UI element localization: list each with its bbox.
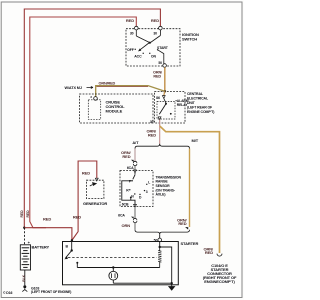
svg-text:ELECTRICAL: ELECTRICAL (187, 97, 209, 101)
svg-text:ON: ON (151, 55, 157, 59)
label ALARM RELAY (175, 100, 177, 102)
alarm relay pin 86 (arrow) (162, 96, 165, 99)
wire ORN/RED horizontal to cruise module (96, 86, 165, 97)
border frame (decorative) (1, 2, 242, 298)
svg-text:L: L (148, 181, 150, 185)
generator box (86, 180, 104, 198)
connector C104/O E half-circle (217, 254, 222, 257)
wire out of CEU (159, 120, 161, 126)
chassis ground starter (169, 283, 175, 290)
wire below sensor (134, 207, 136, 219)
relay contact arm (164, 98, 166, 103)
transmission range sensor box (120, 171, 153, 207)
split bracket A/T-M/T (135, 144, 190, 149)
svg-text:RED: RED (126, 18, 134, 23)
switch arm pivot dot (149, 42, 151, 44)
arrowhead of switch arm (138, 48, 141, 51)
svg-text:3: 3 (146, 190, 148, 194)
svg-text:START: START (157, 46, 169, 50)
contact dot D (139, 194, 140, 195)
wire ORN/RED into alarm relay (164, 91, 165, 95)
contact dot L (146, 184, 147, 185)
arrow on wire below sensor (131, 217, 134, 219)
terminal 50 (circle) (163, 64, 167, 68)
starter terminal 50 (circle) (158, 238, 162, 242)
svg-text:BLK: BLK (22, 274, 26, 281)
wire RED horizontal battery to starter (24, 228, 72, 241)
svg-text:P: P (129, 180, 132, 184)
contact dot START (157, 49, 158, 50)
wire to merge bracket (134, 222, 136, 230)
wire ORN/RED ignition 50 down to junction (164, 67, 166, 91)
svg-text:(LEFT REAR OF: (LEFT REAR OF (187, 105, 213, 109)
svg-text:30: 30 (153, 31, 157, 35)
contact dot R (129, 189, 130, 190)
solenoid contact arm (66, 251, 72, 258)
wire A/T into sensor (134, 165, 136, 170)
svg-text:OFF: OFF (127, 48, 135, 52)
junction dot on path (130, 197, 132, 199)
solenoid fixed contact (76, 262, 78, 264)
relay fixed contact dot (170, 113, 172, 115)
wire B terminal into solenoid (71, 242, 73, 251)
svg-text:3: 3 (90, 95, 92, 99)
node motor tap (112, 266, 114, 268)
ground G102 (23, 285, 26, 288)
svg-text:RED: RED (151, 18, 159, 23)
svg-text:RED: RED (178, 221, 186, 226)
contact dot ON (149, 53, 150, 54)
svg-text:M/T: M/T (192, 138, 199, 143)
svg-text:30: 30 (150, 120, 154, 124)
node junction at cruise branch (164, 90, 167, 93)
solenoid winding from 50 (159, 242, 161, 247)
svg-text:RED: RED (26, 210, 30, 218)
starter box (63, 242, 179, 285)
wire dashed battery positive (24, 228, 26, 245)
wire START to terminal 50 (158, 50, 164, 64)
wire A/T branch down (134, 149, 136, 162)
svg-text:50: 50 (158, 61, 162, 65)
hold-in winding wire to case ground (160, 247, 172, 283)
ignition switch box (126, 29, 180, 66)
svg-text:SWITCH: SWITCH (182, 37, 197, 42)
svg-text:RED: RED (122, 154, 130, 159)
generator pin (arrow) (95, 178, 98, 181)
contact dot 3 (144, 190, 145, 191)
wire RED second feed (inner run) (30, 17, 137, 228)
wire solenoid output to motor (77, 267, 159, 269)
svg-text:© D16: © D16 (3, 291, 13, 295)
alarm relay box (157, 102, 175, 120)
svg-text:B: B (66, 245, 69, 249)
starter motor (112, 268, 114, 272)
wire to starter terminal 50 (159, 234, 161, 238)
svg-text:AXLE): AXLE) (156, 193, 166, 197)
svg-text:ENGINECOMP'T): ENGINECOMP'T) (204, 279, 235, 284)
svg-text:RED: RED (205, 250, 213, 255)
wire battery negative to ground (24, 270, 26, 285)
arrow on M/T wire end (185, 227, 188, 230)
wire motor to ground bus (112, 280, 114, 283)
svg-text:N: N (131, 195, 134, 199)
mechanical link (dashed) (68, 257, 157, 259)
node solenoid battery stud (71, 249, 73, 251)
sensor internal wire path (122, 181, 135, 205)
terminal 30 left (circle) (135, 26, 139, 30)
svg-text:RED: RED (20, 210, 24, 218)
svg-text:ACC: ACC (134, 55, 142, 59)
svg-text:30: 30 (130, 31, 134, 35)
contact dot ACC (143, 53, 144, 54)
svg-text:RED: RED (153, 74, 161, 78)
arrow on A/T wire (131, 160, 134, 162)
inline connector below sensor (133, 218, 137, 222)
svg-text:(LEFT FRONT OF ENGINE): (LEFT FRONT OF ENGINE) (31, 290, 71, 294)
svg-text:GENERATOR: GENERATOR (83, 201, 107, 206)
svg-text:RED: RED (82, 171, 90, 176)
svg-text:6CA: 6CA (127, 166, 134, 170)
terminal 30 right (circle) (159, 26, 163, 30)
contact dot OFF (135, 49, 136, 50)
cruise inner sub-box (88, 100, 100, 120)
svg-text:RED: RED (148, 132, 156, 137)
sensor top pin (arrow) (134, 170, 137, 173)
svg-text:MODULE: MODULE (106, 108, 123, 113)
cruise control module box (80, 94, 154, 123)
svg-text:CENTRAL: CENTRAL (187, 92, 204, 96)
battery (20, 245, 30, 270)
relay bottom pin (arrow) (158, 117, 161, 120)
node battery junction (23, 227, 25, 229)
svg-text:STARTER: STARTER (181, 241, 199, 246)
svg-text:6CA: 6CA (118, 214, 125, 218)
svg-text:A/T: A/T (132, 140, 139, 145)
svg-text:86: 86 (156, 96, 160, 100)
merge bracket to starter 50 (135, 230, 190, 235)
svg-text:R: R (126, 189, 129, 193)
svg-text:D: D (139, 195, 142, 199)
node starter B junction (71, 239, 73, 241)
svg-text:6CB: 6CB (122, 203, 129, 207)
wire RED generator branch (73, 161, 97, 240)
ignition switch internal contacts (136, 30, 160, 50)
pull-in winding coil (158, 248, 161, 268)
wire M/T branch down (orange) (189, 149, 191, 228)
generator internal arrow (90, 183, 96, 186)
wire ORN/RED down to split (159, 126, 161, 144)
sensor switch arm (134, 173, 136, 175)
wire ORN/RED branch to starter connector (orange) (160, 126, 220, 253)
svg-text:RED: RED (43, 217, 51, 222)
svg-text:BATTERY: BATTERY (32, 244, 50, 249)
svg-text:W/ATX MJ: W/ATX MJ (65, 86, 82, 90)
cruise module terminal (circle) (94, 97, 98, 101)
wire RED battery-to-ignition (outer, top and left run) (24, 9, 160, 228)
contact dot P (132, 180, 133, 181)
svg-text:ORN/RED: ORN/RED (99, 81, 116, 85)
svg-text:RED: RED (73, 215, 81, 220)
svg-text:ORN: ORN (121, 223, 130, 228)
svg-text:RELAY: RELAY (177, 103, 188, 107)
svg-text:ENGINE COMP'T): ENGINE COMP'T) (187, 110, 214, 114)
central electrical unit box (155, 92, 186, 124)
contact dot N (134, 193, 135, 194)
sensor bottom pin (arrow) (134, 204, 137, 207)
inline connector on A/T wire (133, 161, 137, 165)
